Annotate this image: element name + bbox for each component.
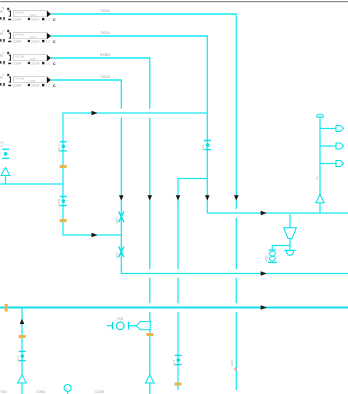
direction arrow down x=121 xyxy=(119,195,124,200)
wire vertical x=207 down to corner and right bus y=213 xyxy=(207,35,348,213)
svg-text:W05: W05 xyxy=(115,217,119,224)
twisted pair splice W05 lower on x=121 xyxy=(119,247,124,258)
stub y=163.5 xyxy=(320,163,336,165)
wire vertical x=63 with corner to y=235 xyxy=(63,113,121,236)
wire row1 TXD xyxy=(51,13,236,15)
direction arrow y=235 xyxy=(92,233,98,238)
wire branch y=178.5 to x=178 xyxy=(178,179,207,391)
direction arrow y=273.5 xyxy=(261,271,267,276)
svg-text:X9.1: X9.1 xyxy=(201,144,205,151)
shield funnel xyxy=(284,228,297,239)
splice marker orange x=150 y=334.5 xyxy=(146,333,153,336)
direction arrow down x=236 xyxy=(234,195,239,200)
svg-text:G04: G04 xyxy=(1,390,7,394)
wire vertical x=150 xyxy=(149,57,151,394)
svg-text:COM2: COM2 xyxy=(95,390,104,394)
red marker x=236 y=369 xyxy=(234,368,237,371)
ECU block row1 xyxy=(0,6,56,22)
direction arrow y=213 xyxy=(261,211,267,216)
svg-text:X18.B: X18.B xyxy=(57,199,61,207)
shield coil terminal W30 xyxy=(268,249,277,263)
wire vertical x=22 xyxy=(21,308,23,394)
connector X2 on x=178 xyxy=(175,355,182,365)
wire right bus x=320 xyxy=(319,117,321,214)
direction arrow down x=150 xyxy=(148,195,153,200)
svg-text:COM1: COM1 xyxy=(36,390,45,394)
svg-text:a: a xyxy=(66,387,68,391)
svg-text:TXD/0: TXD/0 xyxy=(100,31,110,35)
ground via circle bottom xyxy=(64,385,71,394)
wire vertical x=121 down to corner and right y=273.5 xyxy=(121,79,348,273)
svg-text:TXD/0: TXD/0 xyxy=(100,75,110,79)
shield dome terminal xyxy=(284,250,295,256)
chevron connector 1 xyxy=(336,126,344,132)
svg-text:2X: 2X xyxy=(315,176,319,180)
stub y=128.5 xyxy=(320,128,336,130)
svg-text:W30: W30 xyxy=(264,256,268,263)
wire row2 TXD xyxy=(51,35,207,37)
shield drop x=290 xyxy=(272,214,290,250)
inline plug x=320 y=199 xyxy=(316,195,324,203)
connector X18.A on x=63 xyxy=(60,141,67,151)
ECU block row4 xyxy=(0,72,56,88)
svg-text:.2: .2 xyxy=(0,144,3,148)
connector X7 on x=22 xyxy=(19,351,26,361)
svg-text:X18.A: X18.A xyxy=(57,144,61,152)
ECU block row2 xyxy=(0,28,56,44)
bell plug x=150 bottom xyxy=(145,375,154,383)
svg-text:TXD/0: TXD/0 xyxy=(100,9,110,13)
power bus y=307.5 xyxy=(0,307,348,309)
svg-text:X2.4: X2.4 xyxy=(172,359,176,366)
twisted pair splice W05 upper on x=121 xyxy=(119,212,124,223)
connector X9 on x=207 xyxy=(204,140,211,150)
top frame border xyxy=(0,1,348,2)
direction arrow down x=178 xyxy=(176,195,181,200)
splice marker orange x=63 y=166.5 xyxy=(60,165,67,168)
splice marker orange x=178 y=384 xyxy=(175,383,182,386)
svg-text:X7.2: X7.2 xyxy=(16,355,20,362)
left bell plug xyxy=(1,168,10,176)
bell plug x=22 bottom xyxy=(18,375,27,383)
connector X18.B on x=63 xyxy=(60,196,67,206)
ECU block row3 xyxy=(0,50,56,66)
splice marker orange x=22 y=336.5 xyxy=(19,335,26,338)
wire row4 TXD xyxy=(51,79,121,81)
splice marker orange x=63 y=220.5 xyxy=(60,219,67,222)
direction arrow y=307.5 xyxy=(261,305,267,310)
svg-text:TXD: TXD xyxy=(117,317,124,321)
wire horizontal y=184 left xyxy=(0,183,64,185)
svg-text:RXD/0: RXD/0 xyxy=(100,53,110,57)
wire vertical x=236 xyxy=(235,13,237,390)
chevron connector 2 xyxy=(336,143,344,149)
left chain stub wire xyxy=(5,175,7,184)
direction arrow up x=22 xyxy=(20,319,25,324)
stub y=146 xyxy=(320,145,336,147)
svg-text:W40: W40 xyxy=(230,360,234,367)
direction arrow y=113 xyxy=(92,111,98,116)
top cap connector x=320 xyxy=(317,114,324,117)
chevron connector 3 xyxy=(336,161,344,167)
wire horizontal y=113 xyxy=(63,112,207,114)
TXD tag pentagon xyxy=(136,322,150,330)
left terminal connector xyxy=(2,149,9,159)
wire row3 RXD xyxy=(51,57,150,59)
direction arrow down x=207 xyxy=(205,195,210,200)
TXD ring terminal xyxy=(107,322,136,330)
svg-text:W05: W05 xyxy=(115,252,119,259)
power tap marker orange vertical at left of bus xyxy=(5,304,8,312)
